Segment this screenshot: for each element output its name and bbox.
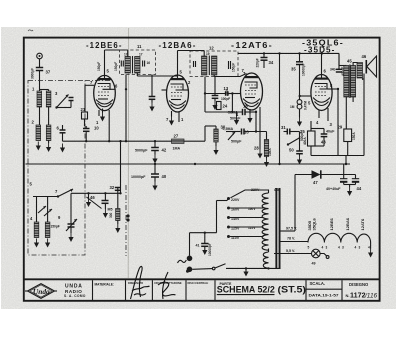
junction [154, 163, 156, 165]
resistor R25 box [308, 131, 316, 146]
trimmer capacitor right [142, 61, 144, 67]
oscillator section: coil L5a [34, 222, 39, 238]
ground [36, 142, 41, 151]
capacitor C37 3000pF [36, 67, 43, 69]
wire [120, 141, 122, 193]
resistor R1 [37, 91, 42, 107]
coil [135, 57, 140, 74]
junction [194, 163, 196, 165]
mains tilde [178, 260, 187, 263]
wire [205, 93, 226, 95]
capacitor C34b [338, 53, 340, 69]
junction [154, 140, 156, 142]
ground [213, 146, 218, 155]
capacitor to ground [214, 77, 216, 96]
B+ screen bus y53.4 [238, 52, 339, 54]
detector load to ground [259, 107, 261, 150]
mains switch [192, 268, 212, 271]
title block dividers [92, 280, 94, 300]
scala/data divider [306, 288, 342, 290]
capacitor [69, 97, 74, 99]
coil L2b [46, 125, 51, 141]
ground [34, 239, 39, 248]
wire [231, 94, 233, 113]
secondary tap 78V [281, 241, 309, 243]
secondary tap 97,5V [281, 230, 296, 232]
op tube V2 12BA6 [162, 51, 192, 126]
switch arrows [38, 206, 46, 213]
bracket wire y155.5 [310, 146, 312, 156]
resistor R24 [217, 102, 222, 110]
wire AVC bus [63, 140, 206, 142]
wire V2 plate to IF2 [178, 50, 205, 52]
resistor R29 box [344, 129, 352, 142]
tuner dashed box [28, 81, 85, 256]
wire secondary to speaker [353, 63, 358, 66]
trimmer capacitor left [193, 61, 195, 67]
IF transformer 1 dashed box [120, 50, 156, 75]
junction [125, 140, 127, 142]
main winding [262, 193, 268, 250]
wire IF2 primary return [204, 77, 206, 113]
wire [39, 59, 41, 67]
capacitor C34 220pF [263, 53, 265, 57]
signature 2 [158, 272, 176, 299]
ground under C6 [60, 144, 65, 153]
op tube V1 12BE6 [85, 50, 118, 125]
winding top lead [231, 190, 269, 198]
node 21 box [82, 112, 88, 119]
capacitor C40b [102, 200, 109, 202]
rectifier diode D47 [295, 174, 312, 176]
capacitor to ground [151, 75, 153, 97]
op tube V3 12AT6 [234, 71, 263, 132]
grid resistor to ground [299, 95, 301, 97]
mains tap terminals [227, 197, 230, 200]
capacitor C42 5000pF [151, 147, 159, 149]
wire V1 grid junction [125, 88, 127, 90]
stray scan mark [28, 30, 33, 31]
heater winding [263, 252, 268, 268]
wire [39, 107, 41, 125]
resistor R1b [46, 91, 51, 107]
capacitor C43 40uF [311, 128, 324, 130]
ground [68, 233, 73, 242]
antenna terminal [37, 53, 43, 59]
junction on title rule [186, 270, 189, 273]
lamp return hook [320, 254, 327, 257]
core [275, 188, 277, 269]
wire plug to selector [189, 233, 191, 256]
title block top rule [24, 278, 380, 280]
oscillator padder row y193 [71, 192, 121, 194]
wire IF2 secondary to V3 grid [213, 75, 215, 77]
junction [108, 140, 110, 142]
core [208, 56, 210, 76]
coil [125, 57, 130, 74]
filter capacitors C44 40+40uF [343, 164, 345, 179]
capacitor C40 10000pF [154, 164, 156, 174]
pilot lamp 49 [312, 249, 321, 258]
IF transformer 2 dashed box [190, 51, 238, 77]
wire riser x117.8 [108, 110, 110, 141]
logo diamond Unda [25, 284, 57, 299]
switch S3 [57, 95, 69, 108]
rectifier input from transformer tap [294, 175, 296, 232]
trimmer capacitor left [120, 61, 122, 67]
resistor R30 [214, 129, 218, 142]
tone switch [288, 138, 300, 145]
output transformer T48 [338, 53, 340, 65]
coil L5b [45, 222, 50, 238]
resistor R28 10k [266, 132, 268, 140]
resistor R27 1Mohm [172, 139, 185, 143]
coil [212, 56, 217, 75]
junction [278, 163, 280, 165]
phono terminals [126, 214, 129, 217]
wire [70, 197, 72, 217]
coil [202, 56, 207, 75]
speaker return wire [363, 74, 365, 156]
mains plug [187, 255, 193, 261]
wire [299, 65, 301, 97]
junction [345, 163, 347, 165]
trimmer arrow [87, 197, 102, 209]
wire [39, 71, 41, 92]
wire [40, 89, 49, 91]
capacitor C41 [204, 233, 206, 244]
dashed extension [85, 80, 112, 82]
grid drive wire from V4 [337, 89, 339, 156]
core [132, 56, 134, 74]
speaker 46 [357, 63, 363, 79]
trimmer capacitor right [228, 61, 230, 69]
wire [36, 197, 38, 223]
wire plate to IF1 [105, 49, 128, 51]
secondary tap 5,5V [274, 253, 311, 255]
chassis arrow [245, 268, 247, 271]
filament string end to ground [370, 243, 372, 249]
variable capacitor C9 [68, 223, 75, 225]
ground [88, 193, 90, 198]
border frame [24, 38, 380, 301]
op tube V4 35QL6 [300, 53, 339, 127]
capacitor C35 10000pF [299, 53, 301, 61]
tap wires [230, 207, 264, 209]
filament string arcs [308, 233, 371, 242]
ground bus wire y164 [26, 163, 351, 165]
mains return bus [226, 267, 280, 269]
wire primary bottom to R29 [345, 97, 347, 129]
signature 1 [131, 266, 150, 299]
long dropper wire x279.5 [279, 53, 281, 164]
ground [48, 141, 50, 144]
dashed line x126 [125, 185, 127, 256]
wire riser to R30 [204, 126, 206, 141]
ground [45, 239, 50, 248]
paper crease [127, 28, 129, 278]
wire IF1 secondary to V2 [136, 73, 138, 76]
coil L2a [36, 125, 41, 141]
junction [263, 52, 265, 54]
